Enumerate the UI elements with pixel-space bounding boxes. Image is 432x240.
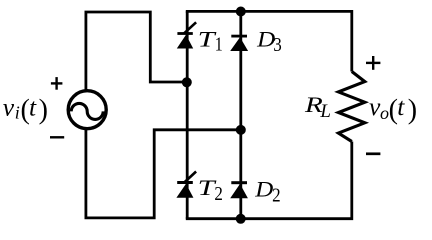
label vi(t) — [3, 92, 48, 125]
svg-text:2: 2 — [272, 184, 281, 206]
svg-text:D: D — [254, 176, 273, 201]
diode D3 (pointing up) — [230, 35, 248, 51]
svg-text:L: L — [319, 101, 331, 122]
wire: top rail — [186, 11, 352, 71]
label vo(t) — [369, 92, 417, 126]
plus sign at load — [366, 56, 380, 70]
wire: D-leg vertical — [239, 11, 242, 218]
svg-text:t: t — [397, 92, 405, 121]
minus sign at source — [50, 136, 64, 138]
label D3 — [256, 27, 282, 56]
diode D2 (pointing up) — [230, 181, 248, 198]
wire: source top lead and jog to T-leg midpoint — [86, 12, 187, 90]
svg-text:): ) — [39, 95, 48, 126]
wire: source bottom lead and jog to D-leg midpoint (crosses T-leg, no connection) — [86, 129, 241, 218]
svg-text:3: 3 — [273, 34, 282, 56]
label T2 — [198, 175, 223, 205]
thyristor T1 (pointing up, gate up-right) — [177, 22, 196, 48]
svg-text:v: v — [3, 92, 15, 121]
AC source vi(t) circle — [68, 91, 106, 129]
label T1 — [198, 27, 223, 56]
minus sign at load — [366, 152, 380, 155]
svg-text:2: 2 — [214, 183, 223, 205]
svg-text:): ) — [408, 95, 417, 126]
thyristor T2 (pointing up, gate up-right) — [176, 172, 196, 198]
junction dot: D-leg midpoint node — [236, 125, 246, 135]
svg-text:i: i — [15, 103, 20, 123]
resistor RL zigzag — [338, 72, 364, 142]
wire: bottom rail — [186, 142, 352, 219]
junction dot: T-leg midpoint node — [182, 77, 192, 87]
junction dot: D2 bottom node on bottom rail — [236, 214, 246, 224]
svg-text:t: t — [29, 92, 37, 121]
svg-text:1: 1 — [215, 33, 223, 55]
plus sign at source — [51, 77, 63, 90]
label D2 — [254, 176, 280, 206]
AC source sine wave — [71, 103, 103, 119]
junction dot: D3 top node on top rail — [236, 7, 246, 17]
wire: T-leg vertical — [186, 11, 189, 218]
label RL — [304, 92, 331, 122]
